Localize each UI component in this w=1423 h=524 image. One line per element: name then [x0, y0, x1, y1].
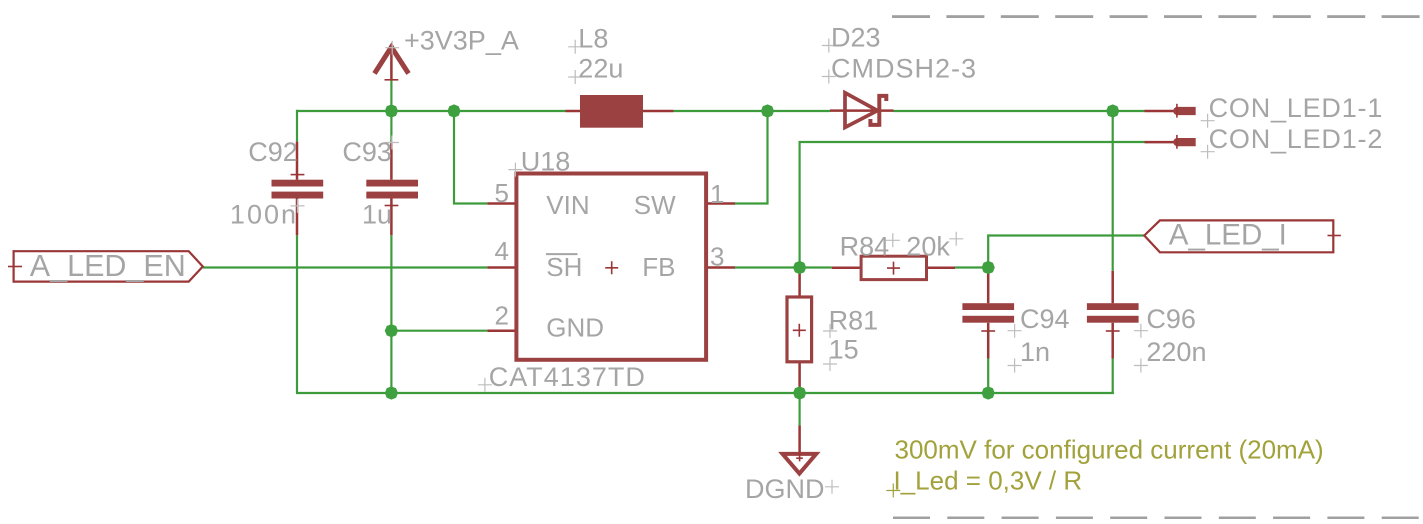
svg-text:GND: GND: [546, 313, 604, 343]
svg-text:C94: C94: [1020, 304, 1070, 334]
svg-text:FB: FB: [642, 252, 675, 282]
svg-text:L8: L8: [578, 24, 608, 54]
svg-text:A_LED_I: A_LED_I: [1169, 218, 1287, 251]
svg-text:C93: C93: [342, 137, 392, 167]
svg-text:SH: SH: [546, 252, 582, 282]
svg-text:22u: 22u: [578, 53, 623, 83]
svg-text:4: 4: [495, 236, 509, 266]
svg-text:VIN: VIN: [546, 190, 589, 220]
svg-text:+3V3P_A: +3V3P_A: [404, 26, 519, 56]
svg-text:SW: SW: [634, 190, 676, 220]
svg-text:1u: 1u: [362, 200, 392, 230]
svg-text:100n: 100n: [230, 200, 298, 230]
svg-text:D23: D23: [831, 22, 881, 52]
svg-text:A_LED_EN: A_LED_EN: [30, 249, 186, 283]
svg-text:20k: 20k: [906, 232, 950, 262]
svg-text:1: 1: [710, 179, 724, 209]
svg-text:CON_LED1-1: CON_LED1-1: [1209, 93, 1384, 123]
svg-text:CON_LED1-2: CON_LED1-2: [1209, 124, 1384, 154]
svg-text:C96: C96: [1146, 304, 1196, 334]
svg-text:220n: 220n: [1146, 337, 1206, 367]
svg-text:I_Led = 0,3V / R: I_Led = 0,3V / R: [894, 466, 1083, 496]
svg-text:R84: R84: [840, 232, 890, 262]
svg-text:R81: R81: [829, 305, 879, 335]
svg-text:U18: U18: [521, 147, 571, 177]
svg-text:15: 15: [829, 335, 859, 365]
svg-text:5: 5: [495, 178, 509, 208]
svg-text:300mV for configured current (: 300mV for configured current (20mA): [895, 435, 1324, 465]
svg-text:DGND: DGND: [745, 474, 825, 504]
svg-text:3: 3: [710, 242, 724, 272]
svg-text:1n: 1n: [1020, 337, 1050, 367]
svg-text:C92: C92: [248, 137, 298, 167]
svg-text:CAT4137TD: CAT4137TD: [489, 362, 646, 392]
svg-text:CMDSH2-3: CMDSH2-3: [831, 53, 977, 83]
svg-text:2: 2: [495, 301, 509, 331]
